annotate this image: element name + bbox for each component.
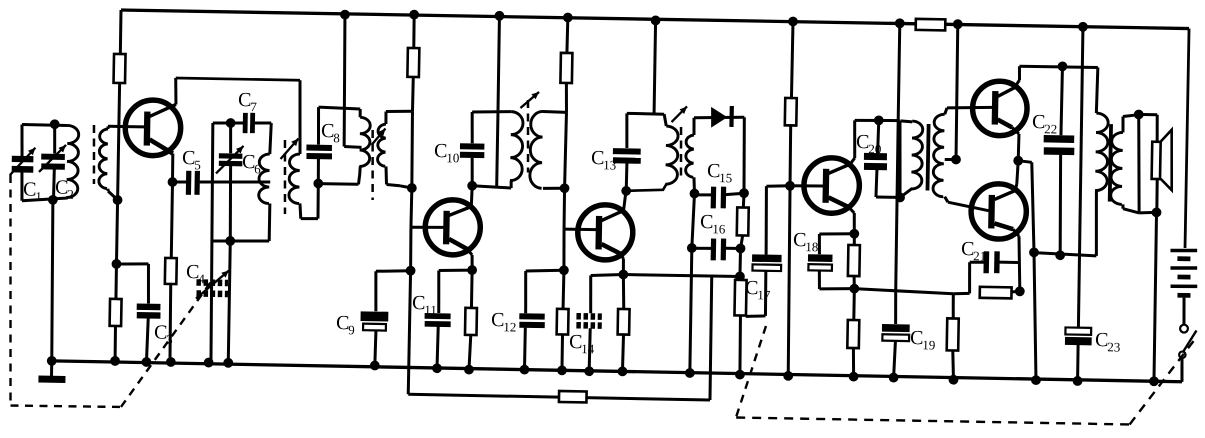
- svg-text:20: 20: [868, 141, 881, 156]
- svg-text:3: 3: [166, 332, 173, 347]
- svg-text:6: 6: [254, 161, 261, 176]
- svg-text:19: 19: [922, 337, 935, 352]
- svg-text:12: 12: [503, 319, 516, 334]
- svg-text:18: 18: [805, 239, 818, 254]
- svg-text:23: 23: [1107, 339, 1120, 354]
- svg-text:1: 1: [35, 189, 42, 204]
- svg-text:21: 21: [973, 248, 986, 263]
- svg-text:13: 13: [603, 157, 616, 172]
- svg-text:10: 10: [446, 150, 459, 165]
- svg-text:5: 5: [194, 157, 201, 172]
- svg-text:11: 11: [424, 302, 437, 317]
- svg-text:14: 14: [581, 341, 595, 356]
- svg-text:17: 17: [757, 287, 771, 302]
- svg-text:7: 7: [250, 99, 257, 114]
- svg-text:8: 8: [333, 130, 340, 145]
- svg-text:15: 15: [719, 170, 732, 185]
- svg-text:16: 16: [712, 221, 726, 236]
- svg-text:9: 9: [348, 322, 355, 337]
- svg-text:22: 22: [1044, 121, 1057, 136]
- svg-text:4: 4: [198, 271, 205, 286]
- svg-text:2: 2: [67, 187, 74, 202]
